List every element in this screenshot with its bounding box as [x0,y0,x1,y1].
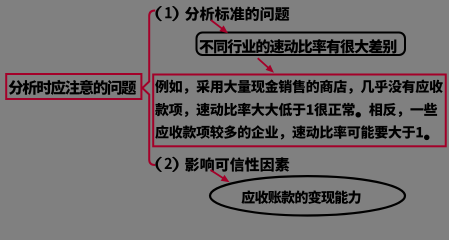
arrow A3 [211,170,230,182]
label (1) 分析标准的问题 [155,6,289,21]
label (2) 影响可信性因素 [155,157,289,172]
box B3 (example paragraph) [153,75,446,147]
rounded box B2 (不同行业的速动比率有很大差别) [197,33,406,56]
text B3 line1 [155,80,443,94]
text B3 line3 [155,125,429,140]
arrow A2 [258,58,274,73]
text B3 line2 [155,103,437,118]
brace [142,11,155,166]
arrow A1 [211,20,228,33]
text E1 应收账款的变现能力 [242,190,361,204]
text B1 分析时应注意的问题 [9,80,137,95]
text B2 不同行业的速动比率有很大差别 [199,39,396,53]
ellipse E1 (应收账款的变现能力) [210,176,405,215]
box B1 (分析时应注意的问题) [6,74,141,99]
